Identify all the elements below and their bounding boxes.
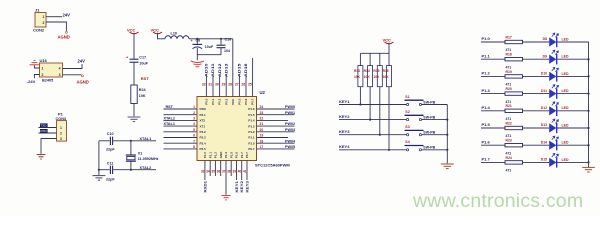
svg-text:1: 1 (60, 126, 62, 130)
svg-text:S4: S4 (405, 140, 409, 144)
svg-text:D15: D15 (541, 158, 547, 162)
svg-text:6: 6 (193, 134, 195, 138)
svg-text:R19: R19 (506, 70, 512, 74)
svg-text:32: 32 (202, 82, 206, 86)
svg-text:PW04: PW04 (285, 139, 296, 143)
svg-text:4: 4 (193, 122, 195, 126)
svg-text:KEY2: KEY2 (339, 114, 350, 119)
svg-text:P1.5: P1.5 (482, 122, 491, 127)
svg-text:R24: R24 (139, 88, 147, 92)
led row 3: node P1.2, resistor R19, LED D3 (481, 67, 589, 86)
svg-text:P0.2: P0.2 (218, 98, 222, 105)
key row2: node KEY2, switch S2 (339, 110, 448, 121)
svg-text:AD12: AD12 (218, 63, 222, 77)
svg-text:P1.4: P1.4 (248, 119, 255, 123)
power symbol +24V (red) (30, 60, 40, 64)
wire R33 to key row1 (359, 87, 361, 105)
MCU top inside pin names (rotated) (205, 98, 255, 105)
node crystal top junction (130, 140, 132, 142)
svg-text:U2: U2 (260, 90, 266, 95)
svg-text:P1.0: P1.0 (248, 141, 255, 145)
MCU right pin wires (257, 109, 295, 149)
led row 4: node P1.3, resistor R20, LED D4 (481, 85, 589, 104)
svg-text:R18: R18 (506, 53, 512, 57)
svg-text:VCC: VCC (127, 28, 136, 33)
svg-text:P1.6: P1.6 (235, 152, 239, 159)
svg-text:2: 2 (60, 131, 62, 135)
svg-text:LED: LED (562, 106, 569, 110)
svg-text:P0.6: P0.6 (244, 98, 248, 105)
crystal X1 (126, 141, 159, 170)
svg-text:P3.7: P3.7 (245, 152, 249, 159)
svg-text:19: 19 (260, 134, 264, 138)
svg-text:CON2: CON2 (33, 27, 45, 32)
svg-text:S2: S2 (405, 110, 409, 114)
svg-text:SW-PB: SW-PB (423, 146, 435, 150)
svg-text:KEY1: KEY1 (235, 181, 239, 193)
svg-text:R35: R35 (373, 69, 379, 73)
MCU top pin wires (206, 39, 252, 97)
svg-text:P3.4: P3.4 (200, 141, 207, 145)
resistor R36 (383, 53, 392, 86)
capacitor C17 (126, 55, 149, 65)
svg-text:VCC: VCC (383, 38, 392, 43)
svg-text:www.cntronics.com: www.cntronics.com (412, 190, 583, 212)
wire LED common rail (588, 42, 590, 167)
svg-text:AD10: AD10 (205, 63, 209, 77)
wire U16 pin1 to +24V power (34, 65, 39, 68)
svg-text:38: 38 (227, 170, 231, 174)
svg-text:11.0592MHz: 11.0592MHz (138, 157, 159, 161)
svg-text:PW03: PW03 (285, 128, 295, 132)
node C16 (220, 38, 222, 40)
svg-text:P1.0: P1.0 (482, 36, 491, 41)
svg-text:P1.0: P1.0 (203, 152, 207, 159)
svg-text:33: 33 (201, 170, 205, 174)
wire VCC to C17 (133, 33, 135, 59)
led row 7: node P1.6, resistor R23, LED D7 (481, 136, 589, 155)
svg-text:-24V: -24V (27, 79, 36, 84)
svg-text:R33: R33 (354, 69, 360, 73)
svg-text:LED: LED (562, 141, 569, 145)
svg-text:P3.3: P3.3 (200, 136, 207, 140)
svg-text:XTAL2: XTAL2 (140, 166, 152, 170)
svg-text:PW05: PW05 (285, 145, 295, 149)
ground (MCU bottom, red) (222, 196, 231, 200)
svg-text:24: 24 (260, 105, 264, 109)
svg-text:P3.2: P3.2 (200, 130, 207, 134)
wire XTAL1 row (99, 140, 110, 142)
ground (keypad) (441, 164, 454, 169)
svg-text:25: 25 (248, 82, 252, 86)
svg-text:PW01: PW01 (285, 111, 295, 115)
wire R34 to key row2 (369, 87, 371, 120)
svg-text:D12: D12 (541, 106, 547, 110)
svg-text:P0.7: P0.7 (248, 147, 255, 151)
ground (LED rail) (582, 167, 595, 172)
svg-text:D14: D14 (541, 140, 547, 144)
right net labels PWM (285, 105, 296, 149)
svg-text:S3: S3 (405, 125, 409, 129)
power VCC (reset circuit) (127, 28, 139, 34)
svg-text:S1: S1 (405, 95, 409, 99)
resistor R35 (373, 53, 382, 86)
svg-text:P0.0: P0.0 (205, 98, 209, 105)
power module U16 (40, 58, 63, 83)
svg-text:LED: LED (562, 89, 569, 93)
svg-text:26: 26 (241, 82, 245, 86)
svg-text:34: 34 (206, 170, 210, 174)
connector J1 (33, 7, 46, 32)
wire J1 pin2 to AGND (46, 22, 70, 39)
svg-text:KEY4: KEY4 (339, 144, 350, 149)
wire VCC to L10 (158, 33, 166, 39)
svg-text:104: 104 (224, 49, 230, 53)
resistor R24 (131, 85, 147, 104)
bottom net labels (rotated) (203, 181, 249, 193)
ground (reset) (128, 117, 141, 122)
svg-text:C16: C16 (225, 37, 232, 41)
svg-text:KEY3: KEY3 (245, 181, 249, 193)
wire P1 pin2, net RXD (39, 129, 57, 133)
MCU left pin numbers (193, 105, 195, 149)
connector P1 (56, 112, 67, 142)
svg-text:22pF: 22pF (106, 178, 115, 182)
svg-text:471: 471 (506, 100, 512, 104)
wire keypad ground rail (446, 105, 448, 164)
svg-text:D8: D8 (543, 37, 547, 41)
wire J1 pin1 to 24V (46, 13, 70, 18)
wire R24 to ground (133, 104, 135, 117)
svg-text:3: 3 (59, 73, 61, 77)
svg-text:TXD: TXD (40, 124, 47, 128)
svg-text:R23: R23 (506, 139, 512, 143)
svg-text:P1.1: P1.1 (248, 136, 255, 140)
svg-text:P1.6: P1.6 (248, 107, 255, 111)
MCU left pin wires (164, 109, 198, 149)
svg-text:AGND: AGND (58, 34, 70, 39)
capacitor C11 (106, 161, 115, 181)
svg-text:STC12C5A60PWM: STC12C5A60PWM (255, 163, 290, 168)
capacitor C10 (106, 132, 115, 151)
svg-text:SW-PB: SW-PB (423, 116, 435, 120)
svg-text:P1.4: P1.4 (224, 152, 228, 159)
svg-text:P1.4: P1.4 (482, 105, 491, 110)
svg-text:P0.5: P0.5 (238, 98, 242, 105)
svg-text:P0.3: P0.3 (224, 98, 228, 105)
svg-text:2: 2 (42, 73, 44, 77)
svg-text:LED: LED (562, 72, 569, 76)
svg-text:R17: R17 (506, 35, 512, 39)
svg-text:3: 3 (193, 117, 195, 121)
svg-text:P0.7: P0.7 (251, 98, 255, 105)
MCU left inside pin names (200, 107, 207, 151)
svg-text:471: 471 (506, 134, 512, 138)
svg-text:LED: LED (562, 55, 569, 59)
node rail/XTAL2 junction (98, 169, 100, 171)
wire cap commons (197, 55, 221, 61)
svg-text:P3.5: P3.5 (200, 147, 207, 151)
svg-text:21: 21 (260, 122, 264, 126)
svg-text:24V: 24V (63, 13, 71, 18)
svg-text:30: 30 (215, 82, 219, 86)
svg-text:8: 8 (193, 145, 195, 149)
svg-text:R24: R24 (506, 156, 512, 160)
svg-text:XTAL1: XTAL1 (140, 137, 152, 141)
svg-text:C11: C11 (107, 161, 114, 165)
svg-text:XTAL2: XTAL2 (164, 116, 175, 120)
svg-text:XT1: XT1 (200, 124, 206, 128)
svg-text:P1.5: P1.5 (248, 113, 255, 117)
svg-text:1: 1 (193, 105, 195, 109)
svg-text:28: 28 (228, 82, 232, 86)
svg-text:10K: 10K (139, 94, 146, 98)
svg-text:R20: R20 (506, 87, 512, 91)
svg-text:J1: J1 (35, 7, 40, 12)
wire R36 to key row4 (388, 87, 390, 150)
power VCC (keypad) (383, 38, 394, 44)
svg-text:X1: X1 (138, 151, 143, 155)
svg-text:2: 2 (193, 111, 195, 115)
svg-text:471: 471 (506, 117, 512, 121)
svg-text:+: + (126, 56, 129, 60)
wire VCC to pullup rail (360, 43, 389, 54)
capacitor C16 (217, 37, 232, 54)
svg-text:P1.2: P1.2 (248, 130, 255, 134)
wire U16 pin4 to 24V (63, 59, 86, 69)
MCU top pin numbers (202, 82, 252, 86)
wire C17 to R24, node RST (134, 63, 149, 85)
svg-text:10uF: 10uF (205, 45, 214, 49)
svg-text:KEY2: KEY2 (240, 181, 244, 193)
svg-text:D11: D11 (541, 89, 547, 93)
MCU right pin numbers (260, 105, 264, 149)
wire L10 to MCU AVCC (189, 38, 233, 40)
led row 5: node P1.4, resistor R21, LED D5 (481, 102, 589, 121)
svg-text:KEY3: KEY3 (339, 129, 350, 134)
svg-text:AGND: AGND (77, 79, 89, 84)
wire XTAL2 row (99, 169, 110, 171)
svg-text:P1.2: P1.2 (214, 152, 218, 159)
svg-text:P1.7: P1.7 (240, 152, 244, 159)
MCU bottom pin wires (205, 161, 247, 195)
svg-text:P1.1: P1.1 (208, 152, 212, 159)
wire P1 pin3 to ground (41, 139, 57, 154)
svg-text:RXD: RXD (200, 107, 207, 111)
svg-text:R21: R21 (506, 104, 512, 108)
capacitor C8 (polar) (191, 39, 214, 55)
led row 2: node P1.1, resistor R18, LED D2 (481, 50, 589, 69)
svg-text:XTAL1: XTAL1 (164, 122, 175, 126)
inductor L10 (165, 32, 189, 39)
led row 1: node P1.0, resistor R17, LED D1 (481, 33, 589, 52)
svg-text:27: 27 (235, 82, 239, 86)
svg-text:KEY1: KEY1 (339, 99, 350, 104)
resistor R34 (364, 53, 373, 86)
wire U16 pin2 to -24V (27, 75, 40, 84)
svg-text:AD16: AD16 (244, 63, 248, 77)
svg-text:471: 471 (506, 83, 512, 87)
svg-text:471: 471 (506, 48, 512, 52)
svg-text:C17: C17 (139, 55, 146, 59)
svg-text:PW02: PW02 (285, 122, 295, 126)
led row 8: node P1.7, resistor R24, LED D8 (481, 153, 589, 172)
crystal circuit ground rail (98, 141, 100, 175)
svg-text:20: 20 (260, 128, 264, 132)
MCU U2 body (197, 90, 290, 168)
svg-text:RST: RST (141, 76, 150, 81)
svg-text:RXD1: RXD1 (203, 181, 207, 193)
svg-text:17: 17 (260, 145, 264, 149)
svg-text:P1.3: P1.3 (482, 88, 491, 93)
svg-text:3: 3 (60, 137, 62, 141)
svg-text:P0.1: P0.1 (211, 98, 215, 105)
svg-text:37: 37 (222, 170, 226, 174)
svg-text:P3.1: P3.1 (200, 113, 207, 117)
svg-text:24V: 24V (78, 59, 86, 64)
svg-text:1: 1 (43, 15, 45, 19)
node crystal bottom junction (130, 169, 132, 171)
svg-text:PW00: PW00 (285, 105, 295, 109)
svg-text:471: 471 (506, 169, 512, 173)
svg-text:GND: GND (219, 151, 223, 159)
svg-text:10K: 10K (383, 75, 390, 79)
svg-text:U16: U16 (40, 58, 48, 63)
key row1: node KEY1, switch S1 (339, 95, 447, 106)
svg-text:10K: 10K (354, 75, 361, 79)
MCU right inside pin names (248, 107, 255, 151)
MCU bottom inside pin names (rotated) (203, 151, 249, 159)
svg-text:C8: C8 (196, 39, 201, 43)
ground (P1) (37, 155, 46, 159)
wire R35 to key row3 (379, 87, 381, 135)
svg-text:SW-PB: SW-PB (423, 131, 435, 135)
ground (crystal) (93, 176, 106, 181)
wire P1 pin1, net TXD (39, 123, 57, 127)
svg-text:+: + (191, 39, 194, 43)
svg-text:P1.2: P1.2 (482, 71, 491, 76)
svg-text:P1.3: P1.3 (248, 124, 255, 128)
ground (filter, red arcs) (191, 61, 204, 67)
svg-text:4: 4 (59, 67, 61, 71)
svg-text:22: 22 (260, 117, 264, 121)
key row3: node KEY3, switch S3 (339, 125, 448, 136)
svg-text:D10: D10 (541, 72, 547, 76)
svg-text:39: 39 (232, 170, 236, 174)
svg-text:23: 23 (260, 111, 264, 115)
svg-text:P1.1: P1.1 (482, 53, 491, 58)
svg-text:XT2: XT2 (200, 119, 206, 123)
svg-text:D13: D13 (541, 123, 547, 127)
MCU bottom pin numbers (201, 170, 247, 174)
svg-text:L10: L10 (171, 32, 178, 36)
svg-text:7: 7 (193, 139, 195, 143)
svg-text:22pF: 22pF (106, 147, 115, 151)
svg-text:2: 2 (43, 21, 45, 25)
svg-text:D9: D9 (543, 54, 547, 58)
svg-text:LED: LED (562, 37, 569, 41)
svg-text:471: 471 (506, 151, 512, 155)
svg-text:C10: C10 (107, 132, 114, 136)
led row 6: node P1.5, resistor R22, LED D6 (481, 119, 589, 138)
svg-text:VCC: VCC (231, 98, 235, 105)
svg-text:471: 471 (506, 65, 512, 69)
svg-text:VCC: VCC (151, 28, 160, 33)
power VCC (filter) (151, 28, 163, 34)
svg-text:36: 36 (217, 170, 221, 174)
svg-text:B2405: B2405 (42, 79, 53, 83)
svg-text:41: 41 (243, 170, 247, 174)
node C8 (196, 38, 198, 40)
svg-text:P1.6: P1.6 (482, 139, 491, 144)
resistor R33 (354, 53, 363, 86)
svg-text:LED: LED (562, 123, 569, 127)
svg-text:RXD: RXD (40, 129, 47, 133)
svg-text:SW-PB: SW-PB (423, 100, 435, 104)
svg-text:10K: 10K (364, 75, 371, 79)
svg-text:10uF: 10uF (139, 62, 148, 66)
svg-text:5: 5 (193, 128, 195, 132)
svg-text:R22: R22 (506, 121, 512, 125)
svg-text:P1.5: P1.5 (229, 152, 233, 159)
svg-text:10K: 10K (373, 75, 380, 79)
svg-text:29: 29 (222, 82, 226, 86)
svg-text:LED: LED (562, 158, 569, 162)
svg-text:18: 18 (260, 139, 264, 143)
svg-text:35: 35 (211, 170, 215, 174)
svg-text:R36: R36 (383, 69, 389, 73)
svg-text:P1.7: P1.7 (482, 157, 491, 162)
svg-text:1: 1 (42, 67, 44, 71)
svg-text:R34: R34 (364, 69, 370, 73)
svg-text:AD11: AD11 (211, 63, 215, 77)
svg-text:40: 40 (238, 170, 242, 174)
top net labels (rotated) (205, 63, 249, 77)
wire U16 pin3 to AGND (63, 75, 89, 85)
svg-text:AD13: AD13 (224, 63, 228, 77)
svg-text:CON3: CON3 (56, 117, 67, 121)
svg-text:AD15: AD15 (238, 63, 242, 77)
svg-text:RST: RST (166, 105, 174, 109)
svg-text:31: 31 (208, 82, 212, 86)
key row4: node KEY4, switch S4 (339, 140, 448, 151)
